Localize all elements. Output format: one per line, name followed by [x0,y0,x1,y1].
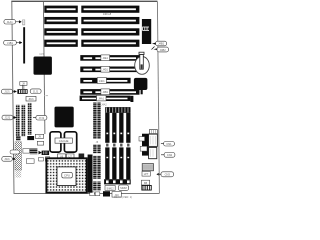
svg-text:J6J1: J6J1 [28,97,34,101]
svg-text:J7J1: J7J1 [39,116,45,120]
svg-text:J4B1: J4B1 [158,42,164,46]
svg-text:J2J1: J2J1 [5,116,11,120]
svg-text:J4F1-8: J4F1-8 [103,12,112,16]
svg-text:CN1: CN1 [166,142,172,146]
svg-text:J1A1: J1A1 [7,20,13,24]
svg-text:M54Hi (VER. 1): M54Hi (VER. 1) [114,195,132,199]
svg-text:U15: U15 [39,53,44,56]
svg-text:CN3: CN3 [165,173,171,177]
svg-text:J4A2: J4A2 [101,104,107,107]
svg-text:J1B1: J1B1 [7,41,13,45]
svg-text:J1J1: J1J1 [4,90,10,94]
svg-text:J4B2: J4B2 [160,48,166,52]
svg-text:SIM12: SIM12 [106,187,114,190]
svg-text:CPU: CPU [64,174,70,178]
svg-text:CN2: CN2 [167,153,173,157]
svg-text:J4C1: J4C1 [99,80,105,83]
svg-text:KB: KB [144,182,148,185]
svg-text:J1J1: J1J1 [33,89,39,93]
svg-text:J4E1: J4E1 [102,57,108,60]
svg-text:J3J1: J3J1 [4,157,10,161]
svg-text:CACHE: CACHE [59,139,69,143]
svg-text:J4D1: J4D1 [102,69,108,72]
svg-text:SIMM: SIMM [120,187,127,190]
svg-text:J4B1: J4B1 [102,91,108,94]
svg-text:LPT: LPT [144,173,149,176]
svg-text:J4A1: J4A1 [98,98,104,101]
